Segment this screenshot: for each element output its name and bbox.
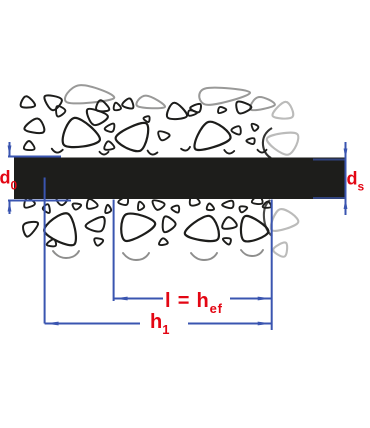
drill hole / anchor bar xyxy=(14,158,346,200)
extension line hef left (x=113.6) xyxy=(113,200,115,302)
dimension ds arrows xyxy=(344,149,348,160)
concrete aggregate texture, top band xyxy=(21,85,275,154)
dimension ds (right): extension lines xyxy=(313,142,346,215)
extension line h1 left (x=44.6) xyxy=(44,178,46,324)
faded aggregate at right edge of section xyxy=(263,102,298,257)
dimension d0 (left): extension lines xyxy=(8,142,71,214)
dimension line h1 xyxy=(45,323,272,325)
concrete aggregate texture, bottom band xyxy=(23,195,271,260)
dimension d0 arrows xyxy=(8,146,12,157)
dimension line l = hef xyxy=(114,298,272,300)
extension line right (hole end, x=271.7) xyxy=(271,200,273,331)
